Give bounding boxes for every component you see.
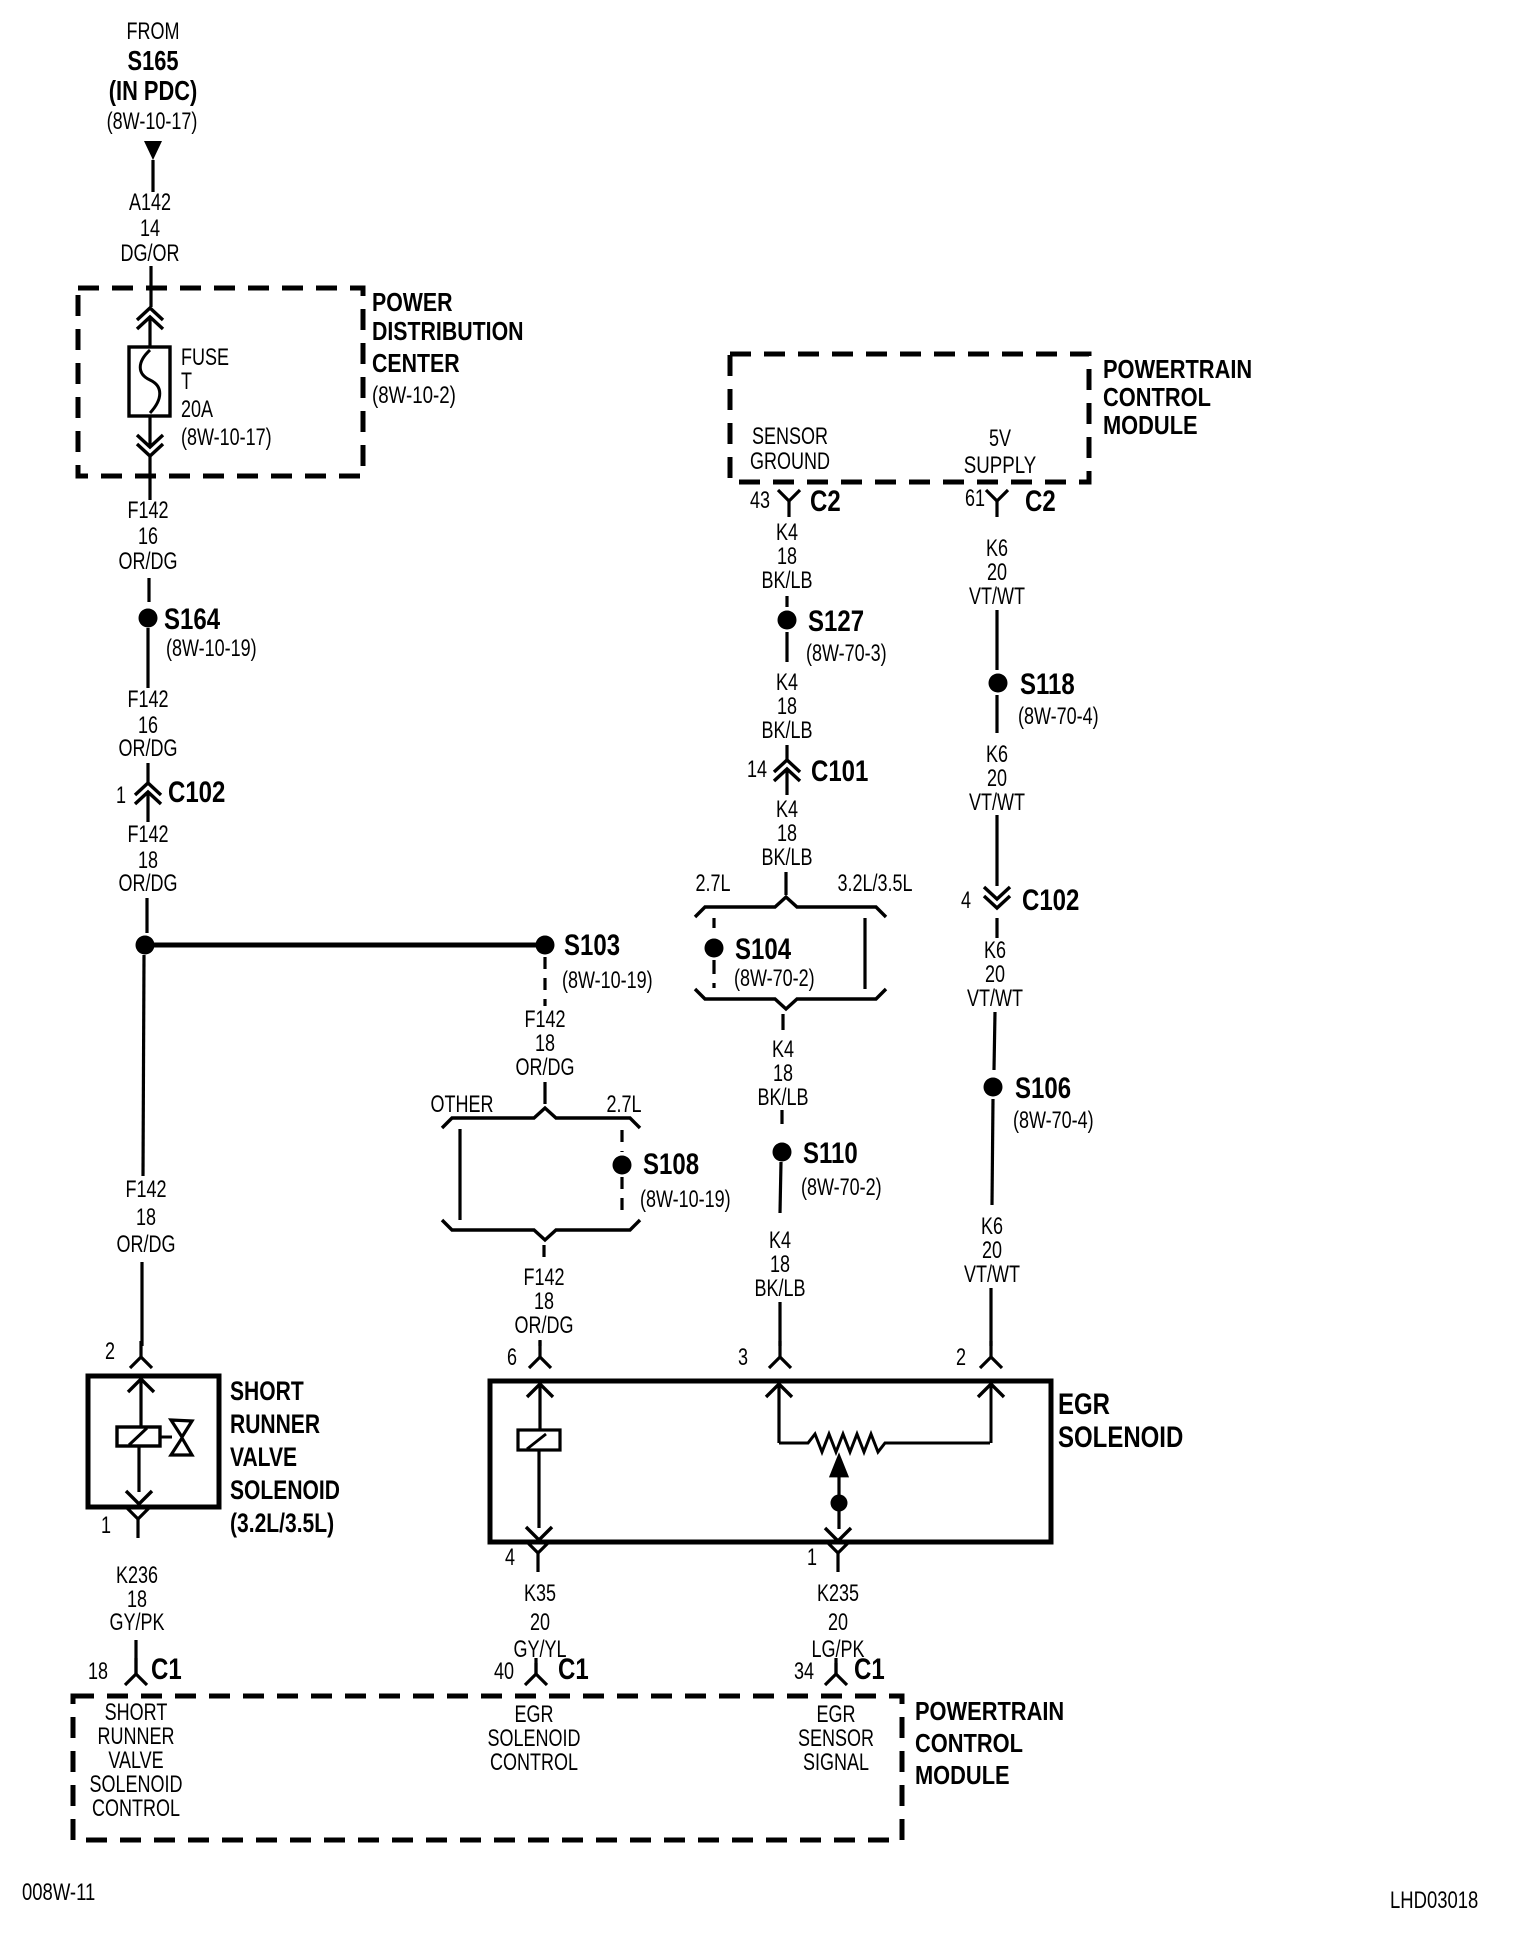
- wire label F142 18 OR/DG: [119, 822, 178, 897]
- EGR pin 6 terminal: [529, 1341, 551, 1368]
- svg-text:K6: K6: [984, 938, 1006, 964]
- svg-text:14: 14: [747, 757, 767, 783]
- EGR internal terminal pin 6 and coil: [518, 1384, 560, 1450]
- splice label S164 (8W-10-19): [164, 601, 257, 661]
- page number 008W-11: [22, 1879, 95, 1906]
- svg-text:C2: C2: [810, 483, 841, 517]
- branch 2.7L wire: [712, 918, 715, 929]
- svg-text:C1: C1: [854, 1651, 885, 1685]
- svg-text:20: 20: [828, 1610, 848, 1636]
- wire to EGR pin 2: [989, 1288, 992, 1346]
- svg-text:(8W-70-2): (8W-70-2): [801, 1175, 882, 1201]
- svg-text:F142: F142: [127, 687, 168, 713]
- svg-text:K235: K235: [817, 1581, 859, 1607]
- wire: [780, 1110, 783, 1124]
- svg-text:GY/PK: GY/PK: [110, 1610, 165, 1636]
- wire label K6 20 VT/WT: [969, 742, 1025, 816]
- pin label 1: [807, 1545, 817, 1571]
- svg-text:20: 20: [987, 560, 1007, 586]
- svg-text:SOLENOID: SOLENOID: [488, 1726, 581, 1752]
- svg-text:CONTROL: CONTROL: [1103, 383, 1211, 412]
- svg-text:F142: F142: [127, 498, 168, 524]
- svg-text:20: 20: [530, 1610, 550, 1636]
- wire to EGR pin 6: [538, 1340, 541, 1346]
- wire label K6 20 VT/WT: [964, 1214, 1020, 1288]
- svg-text:(8W-70-2): (8W-70-2): [734, 966, 815, 992]
- svg-text:18: 18: [136, 1205, 156, 1231]
- branch 3.2L/3.5L wire: [863, 918, 866, 989]
- EGR pin 4 terminal: [527, 1542, 549, 1572]
- svg-text:T: T: [181, 369, 192, 395]
- svg-text:GROUND: GROUND: [750, 449, 830, 475]
- svg-text:K35: K35: [524, 1581, 556, 1607]
- svg-text:K4: K4: [769, 1228, 791, 1254]
- splice S103: [536, 936, 555, 955]
- svg-text:1: 1: [807, 1545, 817, 1571]
- svg-text:VT/WT: VT/WT: [969, 584, 1025, 610]
- svg-text:RUNNER: RUNNER: [230, 1410, 320, 1440]
- svg-text:BK/LB: BK/LB: [761, 718, 812, 744]
- svg-text:4: 4: [505, 1545, 515, 1571]
- svg-text:2.7L: 2.7L: [606, 1092, 641, 1118]
- branch wire below S108: [620, 1177, 623, 1219]
- EGR solenoid box: [490, 1381, 1051, 1542]
- splice S164: [139, 609, 158, 628]
- svg-text:C1: C1: [151, 1651, 182, 1685]
- svg-text:20: 20: [985, 962, 1005, 988]
- connector C1 pin 40: [525, 1658, 547, 1685]
- engine split label 3.2L/3.5L: [837, 871, 912, 897]
- svg-text:F142: F142: [125, 1177, 166, 1203]
- wire label K4 18 BK/LB: [757, 1037, 808, 1111]
- pin label 3: [738, 1345, 748, 1371]
- svg-text:CONTROL: CONTROL: [490, 1750, 578, 1776]
- svg-text:S165: S165: [128, 45, 179, 76]
- svg-text:20A: 20A: [181, 397, 214, 423]
- svg-text:RUNNER: RUNNER: [98, 1724, 175, 1750]
- SRV label SHORT RUNNER VALVE SOLENOID (3.2L/3.5L): [230, 1377, 340, 1539]
- figure number LHD03018: [1390, 1887, 1478, 1914]
- power distribution center box: [78, 288, 363, 476]
- connector label 1 C102: [116, 774, 225, 808]
- SRV valve symbol: [171, 1420, 192, 1455]
- wire label K4 18 BK/LB: [761, 520, 812, 594]
- wire: [995, 695, 998, 733]
- PCM pin label EGR SOLENOID CONTROL: [488, 1702, 581, 1776]
- wire: [145, 898, 148, 933]
- svg-text:EGR: EGR: [515, 1702, 554, 1728]
- wire label F142 18 OR/DG: [515, 1265, 574, 1339]
- svg-text:C101: C101: [811, 753, 868, 787]
- wire label K35 20 GY/YL: [513, 1581, 566, 1663]
- svg-text:F142: F142: [523, 1265, 564, 1291]
- svg-text:VT/WT: VT/WT: [969, 790, 1025, 816]
- splice S106: [984, 1078, 1003, 1097]
- EGR internal terminal pin 2: [978, 1384, 1004, 1443]
- svg-text:S110: S110: [803, 1135, 858, 1169]
- svg-text:61: 61: [965, 486, 985, 512]
- wire label K235 20 LG/PK: [811, 1581, 864, 1663]
- svg-text:OTHER: OTHER: [431, 1092, 494, 1118]
- svg-text:DISTRIBUTION: DISTRIBUTION: [372, 317, 524, 347]
- svg-text:18: 18: [773, 1061, 793, 1087]
- splice S110: [773, 1143, 792, 1162]
- svg-text:SENSOR: SENSOR: [798, 1726, 874, 1752]
- svg-text:K6: K6: [986, 536, 1008, 562]
- svg-text:S104: S104: [735, 931, 791, 965]
- engine split label 2.7L: [695, 871, 730, 897]
- wire label A142 14 DG/OR: [121, 190, 180, 267]
- pin label 2: [105, 1339, 115, 1365]
- svg-text:C102: C102: [1022, 882, 1079, 916]
- svg-text:2.7L: 2.7L: [695, 871, 730, 897]
- wire label F142 18 OR/DG: [516, 1007, 575, 1081]
- pin label 4: [505, 1545, 515, 1571]
- PDC label POWER DISTRIBUTION CENTER (8W-10-2): [372, 288, 524, 409]
- svg-text:C102: C102: [168, 774, 225, 808]
- svg-text:20: 20: [982, 1238, 1002, 1264]
- svg-text:BK/LB: BK/LB: [757, 1085, 808, 1111]
- wire to C1 pin 40: [534, 1663, 537, 1674]
- branch 2.7L wire: [620, 1130, 623, 1152]
- svg-text:18: 18: [777, 694, 797, 720]
- wire: [146, 763, 149, 782]
- svg-text:K6: K6: [981, 1214, 1003, 1240]
- svg-text:18: 18: [770, 1252, 790, 1278]
- splice label S104 (8W-70-2): [734, 931, 815, 991]
- svg-text:18: 18: [777, 821, 797, 847]
- node label FROM S165 (IN PDC) (8W-10-17): [107, 19, 198, 135]
- svg-text:1: 1: [101, 1513, 111, 1539]
- svg-text:(8W-10-19): (8W-10-19): [166, 636, 257, 662]
- svg-text:OR/DG: OR/DG: [515, 1313, 574, 1339]
- wire label K4 18 BK/LB: [761, 670, 812, 744]
- svg-text:C2: C2: [1025, 483, 1056, 517]
- svg-text:(3.2L/3.5L): (3.2L/3.5L): [230, 1509, 334, 1539]
- split brace bottom: [442, 1220, 640, 1240]
- svg-text:20: 20: [987, 766, 1007, 792]
- svg-text:F142: F142: [127, 822, 168, 848]
- svg-text:SHORT: SHORT: [105, 1700, 168, 1726]
- branch OTHER wire: [458, 1129, 461, 1220]
- svg-text:(8W-10-17): (8W-10-17): [181, 425, 272, 451]
- connector label 61 C2: [965, 483, 1056, 517]
- svg-text:EGR: EGR: [1058, 1386, 1110, 1420]
- svg-text:OR/DG: OR/DG: [119, 871, 178, 897]
- splice label S106 (8W-70-4): [1013, 1070, 1094, 1133]
- splice S104: [705, 939, 724, 958]
- svg-text:S103: S103: [564, 927, 620, 961]
- svg-text:F142: F142: [524, 1007, 565, 1033]
- EGR wiper splice: [831, 1495, 848, 1512]
- svg-text:MODULE: MODULE: [915, 1761, 1010, 1790]
- svg-text:POWERTRAIN: POWERTRAIN: [1103, 355, 1252, 384]
- wire below S103: [543, 957, 546, 1006]
- wire label F142 16 OR/DG: [119, 687, 178, 762]
- split brace top: [695, 897, 886, 917]
- splice label S103 (8W-10-19): [562, 927, 653, 993]
- svg-text:MODULE: MODULE: [1103, 411, 1198, 440]
- EGR sensor wiper arrow: [831, 1456, 847, 1497]
- wire to SRV solenoid: [140, 1262, 143, 1346]
- svg-text:18: 18: [535, 1031, 555, 1057]
- EGR coil to pin 4: [526, 1450, 552, 1540]
- connector label 18 C1: [88, 1651, 182, 1685]
- svg-text:18: 18: [534, 1289, 554, 1315]
- svg-text:K4: K4: [776, 670, 798, 696]
- EGR pin 1 terminal: [827, 1542, 849, 1572]
- PCM pin label EGR SENSOR SIGNAL: [798, 1702, 874, 1776]
- engine split label OTHER: [431, 1092, 494, 1118]
- svg-text:(8W-70-4): (8W-70-4): [1018, 704, 1099, 730]
- EGR pin 2 terminal: [980, 1341, 1002, 1368]
- PCM pin label SHORT RUNNER VALVE SOLENOID CONTROL: [90, 1700, 183, 1822]
- svg-text:S106: S106: [1015, 1070, 1071, 1104]
- svg-text:(8W-10-19): (8W-10-19): [640, 1187, 731, 1213]
- svg-text:OR/DG: OR/DG: [516, 1055, 575, 1081]
- powertrain control module box top: [730, 354, 1089, 482]
- wire: [784, 872, 787, 895]
- svg-text:40: 40: [494, 1659, 514, 1685]
- wire to C1: [134, 1640, 137, 1674]
- svg-text:(8W-10-19): (8W-10-19): [562, 968, 653, 994]
- svg-text:SUPPLY: SUPPLY: [964, 452, 1036, 479]
- svg-text:OR/DG: OR/DG: [119, 736, 178, 762]
- connector label 14 C101: [747, 753, 868, 787]
- SRV coil to pin 1: [126, 1446, 152, 1504]
- svg-text:OR/DG: OR/DG: [119, 549, 178, 575]
- connector C2 pin 43: [778, 490, 800, 517]
- svg-text:008W-11: 008W-11: [22, 1879, 95, 1906]
- splice label S110 (8W-70-2): [801, 1135, 882, 1200]
- svg-text:16: 16: [138, 524, 158, 550]
- svg-text:S164: S164: [164, 601, 220, 635]
- svg-text:(IN PDC): (IN PDC): [109, 75, 198, 106]
- wire down from junction: [143, 955, 144, 1176]
- EGR pin 3 terminal: [769, 1341, 791, 1368]
- connector label 43 C2: [750, 483, 841, 517]
- svg-text:43: 43: [750, 488, 770, 514]
- svg-text:2: 2: [105, 1339, 115, 1365]
- splice junction: [136, 936, 155, 955]
- pin label 6: [507, 1345, 517, 1371]
- svg-text:1: 1: [116, 783, 126, 809]
- SRV pin 2 terminal: [130, 1341, 152, 1368]
- off-page arrow from S165: [144, 141, 162, 192]
- wire label K236 18 GY/PK: [110, 1563, 165, 1636]
- splice label S127 (8W-70-3): [806, 603, 887, 666]
- splice label S118 (8W-70-4): [1018, 666, 1099, 729]
- splice label S108 (8W-10-19): [640, 1146, 731, 1212]
- svg-text:SIGNAL: SIGNAL: [803, 1750, 869, 1776]
- wire: [780, 1162, 781, 1213]
- svg-text:FROM: FROM: [127, 19, 180, 45]
- connector C101 pin 14: [774, 760, 800, 795]
- svg-text:3.2L/3.5L: 3.2L/3.5L: [837, 871, 912, 897]
- svg-text:(8W-10-2): (8W-10-2): [372, 382, 456, 409]
- svg-text:(8W-10-17): (8W-10-17): [107, 109, 198, 135]
- connector C102 pin 4: [984, 887, 1010, 938]
- svg-text:4: 4: [961, 888, 971, 914]
- wire: [543, 1082, 546, 1104]
- svg-text:(8W-70-3): (8W-70-3): [806, 641, 887, 667]
- engine split label 2.7L: [606, 1092, 641, 1118]
- PCM label POWERTRAIN CONTROL MODULE: [1103, 355, 1252, 440]
- svg-text:CENTER: CENTER: [372, 349, 460, 379]
- pin label 2: [956, 1345, 966, 1371]
- svg-text:BK/LB: BK/LB: [754, 1276, 805, 1302]
- svg-text:K4: K4: [776, 797, 798, 823]
- short runner valve solenoid box: [88, 1376, 219, 1507]
- svg-text:POWER: POWER: [372, 288, 453, 318]
- wire to C102: [995, 815, 998, 886]
- wire: [781, 1014, 784, 1030]
- wire: [542, 1245, 545, 1264]
- splice S118: [989, 674, 1008, 693]
- PCM pin label SENSOR GROUND: [750, 424, 830, 475]
- svg-text:SOLENOID: SOLENOID: [230, 1476, 340, 1506]
- svg-text:DG/OR: DG/OR: [121, 241, 180, 267]
- wire: [785, 632, 788, 662]
- svg-text:S127: S127: [808, 603, 864, 637]
- powertrain control module box bottom: [73, 1696, 902, 1840]
- svg-text:VT/WT: VT/WT: [967, 986, 1023, 1012]
- svg-text:SENSOR: SENSOR: [752, 424, 828, 450]
- wire label K4 18 BK/LB: [761, 797, 812, 871]
- svg-text:BK/LB: BK/LB: [761, 845, 812, 871]
- svg-text:6: 6: [507, 1345, 517, 1371]
- wire to S103: [145, 943, 545, 948]
- svg-text:LHD03018: LHD03018: [1390, 1887, 1478, 1914]
- wire: [147, 578, 150, 602]
- svg-text:SHORT: SHORT: [230, 1377, 304, 1407]
- svg-text:2: 2: [956, 1345, 966, 1371]
- wire: [994, 1012, 995, 1070]
- svg-text:SOLENOID: SOLENOID: [1058, 1419, 1183, 1453]
- svg-text:5V: 5V: [989, 426, 1012, 452]
- connector label 4 C102: [961, 882, 1079, 916]
- wire label K6 20 VT/WT: [967, 938, 1023, 1012]
- svg-text:OR/DG: OR/DG: [117, 1232, 176, 1258]
- connector label 34 C1: [794, 1651, 885, 1685]
- wire: [785, 596, 788, 607]
- svg-text:FUSE: FUSE: [181, 345, 229, 371]
- SRV pin 1 terminal: [127, 1508, 149, 1538]
- wire: [146, 628, 149, 688]
- wire to C1 pin 34: [834, 1663, 837, 1674]
- svg-text:SOLENOID: SOLENOID: [90, 1772, 183, 1798]
- wire: [785, 745, 788, 760]
- EGR label EGR SOLENOID: [1058, 1386, 1183, 1453]
- svg-text:18: 18: [777, 544, 797, 570]
- svg-text:18: 18: [88, 1659, 108, 1685]
- EGR sensor resistor: [779, 1434, 990, 1452]
- connector C1 pin 18: [125, 1658, 147, 1685]
- connector chevrons into fuse: [137, 308, 163, 348]
- fuse T 20A: [129, 347, 170, 416]
- splice S108: [613, 1156, 632, 1175]
- wire: [995, 610, 998, 670]
- EGR wiper to pin 1: [825, 1510, 851, 1541]
- svg-text:EGR: EGR: [817, 1702, 856, 1728]
- svg-text:A142: A142: [129, 190, 171, 216]
- connector C102 pin 1: [135, 783, 161, 822]
- svg-text:34: 34: [794, 1659, 814, 1685]
- wire label F142 18 OR/DG: [117, 1177, 176, 1258]
- SRV internal terminal and coil: [117, 1379, 172, 1446]
- wire A142 into PDC: [149, 266, 152, 307]
- connector C2 pin 61: [986, 490, 1008, 517]
- split brace top: [442, 1108, 640, 1128]
- wire to EGR pin 3: [778, 1302, 781, 1346]
- wire label F142 16 OR/DG: [119, 498, 178, 575]
- PCM label POWERTRAIN CONTROL MODULE: [915, 1697, 1064, 1790]
- svg-text:CONTROL: CONTROL: [915, 1729, 1023, 1758]
- svg-text:BK/LB: BK/LB: [761, 568, 812, 594]
- svg-text:S108: S108: [643, 1146, 699, 1180]
- wire: [992, 1099, 993, 1205]
- fuse label FUSE T 20A (8W-10-17): [181, 345, 272, 451]
- svg-text:K4: K4: [776, 520, 798, 546]
- splice S127: [778, 611, 797, 630]
- svg-text:K6: K6: [986, 742, 1008, 768]
- svg-text:S118: S118: [1020, 666, 1075, 700]
- svg-text:K236: K236: [116, 1563, 158, 1589]
- connector chevrons out of fuse: [137, 416, 163, 500]
- split brace bottom: [695, 989, 886, 1009]
- connector C1 pin 34: [825, 1658, 847, 1685]
- svg-text:VALVE: VALVE: [108, 1748, 163, 1774]
- wire label K4 18 BK/LB: [754, 1228, 805, 1302]
- svg-text:VT/WT: VT/WT: [964, 1262, 1020, 1288]
- pin label 1: [101, 1513, 111, 1539]
- svg-text:VALVE: VALVE: [230, 1443, 297, 1473]
- wire label K6 20 VT/WT: [969, 536, 1025, 610]
- svg-text:POWERTRAIN: POWERTRAIN: [915, 1697, 1064, 1726]
- svg-text:14: 14: [140, 216, 160, 242]
- svg-text:C1: C1: [558, 1651, 589, 1685]
- connector label 40 C1: [494, 1651, 589, 1685]
- PCM pin label 5V SUPPLY: [964, 426, 1036, 479]
- EGR internal terminal pin 3: [766, 1384, 792, 1443]
- branch wire below S104: [712, 960, 715, 988]
- svg-text:(8W-70-4): (8W-70-4): [1013, 1108, 1094, 1134]
- svg-text:3: 3: [738, 1345, 748, 1371]
- svg-text:CONTROL: CONTROL: [92, 1796, 180, 1822]
- svg-text:K4: K4: [772, 1037, 794, 1063]
